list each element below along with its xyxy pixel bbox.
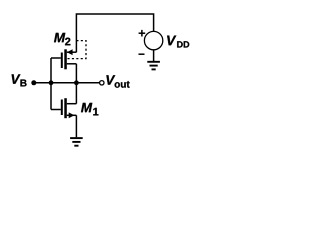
node: junction at drain column [74,80,79,85]
transistor M2 (PMOS, diode-connected) [51,49,76,69]
polarity plus sign [139,30,146,37]
wire: M2 drain down to output node [75,64,77,83]
label M1 [81,103,98,115]
wire: output rail from VB terminal to Vout [34,82,100,84]
label M2 [54,33,70,45]
node: VB terminal dot [31,80,36,85]
wire: M1 drain up to output node [75,83,77,104]
ground symbol below VDD source [147,62,160,70]
voltage source VDD circle [144,31,162,49]
label Vout [106,75,129,87]
wire: M2 source up and VDD rail across to supply [76,14,153,52]
transistor M1 (NMOS) [51,98,76,118]
terminal: Vout open circle [100,81,104,85]
dashed wire: M2 gate-to-drain connection [67,41,86,59]
label VDD [167,36,189,48]
wire: VDD source bottom to ground [153,50,155,61]
node: junction at gate column [49,80,54,85]
wire: M1 source down to ground [75,115,77,137]
wire: gate column joining M2 gate, VB node, M1 gate [50,58,52,110]
label VB [12,74,27,86]
polarity minus sign [139,53,145,55]
ground symbol below M1 [70,138,83,146]
